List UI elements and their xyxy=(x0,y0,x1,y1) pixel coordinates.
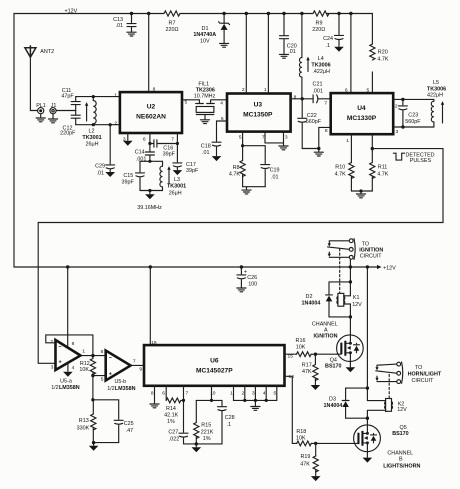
resistor R11 (4.7K) xyxy=(371,134,373,191)
svg-text:221K: 221K xyxy=(201,429,214,435)
capacitor C24 (.1) xyxy=(337,12,340,15)
junction oscillator tank top xyxy=(148,160,151,163)
svg-text:47K: 47K xyxy=(300,462,310,468)
dashed actuator link K2 xyxy=(388,375,390,399)
wire R18 to Q5 gate xyxy=(311,442,353,444)
wire U4 pin2 to C23/L5 xyxy=(393,98,434,100)
svg-text:10K: 10K xyxy=(296,435,306,441)
junction dot U2 pin8 drop xyxy=(147,12,150,15)
svg-text:4: 4 xyxy=(72,365,75,371)
resistor R12 (10K) xyxy=(92,356,94,376)
zener D1 (1N4740A 10V) xyxy=(222,12,225,15)
wire U4 pin3 to L5 bottom xyxy=(393,126,434,128)
capacitor C12 (220pF) xyxy=(71,115,80,125)
svg-text:3: 3 xyxy=(252,390,255,396)
waveform icon detected pulses xyxy=(393,153,404,160)
ground (C13) xyxy=(127,32,136,36)
wire R13/C25 bottom xyxy=(93,443,118,446)
relay K1 contacts xyxy=(349,259,351,267)
op IC U2 NE602AN xyxy=(120,92,182,133)
node +12V arrow right xyxy=(367,266,377,268)
svg-text:1%: 1% xyxy=(167,419,175,425)
wire U6 pin14 to R18 xyxy=(285,376,297,443)
wire R12 to U5-b pin5 xyxy=(91,374,94,377)
diode D3 (1N4004) xyxy=(346,388,368,418)
svg-text:U5-b: U5-b xyxy=(114,379,126,385)
svg-text:R12: R12 xyxy=(80,361,90,367)
wire U6 pin10 stub xyxy=(211,386,213,401)
ground (Q4 source) xyxy=(346,367,356,372)
junction dot U3 pin1 drop xyxy=(267,12,270,15)
inductor L2 (TK3001 26uH) xyxy=(92,97,94,101)
svg-text:U5-a: U5-a xyxy=(60,378,72,384)
op-amp U5-b (1/2 LM358N) xyxy=(106,351,131,381)
capacitor C22 (560pF) xyxy=(298,99,307,149)
jack PL1 xyxy=(38,108,44,114)
junction dot U3 pin2 drop xyxy=(245,12,248,15)
junction dot U4 pin6 drop xyxy=(349,12,352,15)
wire C22 bottom to ground / U4 pin8 xyxy=(302,127,331,151)
svg-text:1: 1 xyxy=(82,348,85,354)
wire R8/C19 bottom xyxy=(243,187,266,190)
wire tank bottom xyxy=(140,190,163,192)
capacitor C21 (.001) xyxy=(313,95,331,103)
ground (Q5 source) xyxy=(363,458,373,463)
resistor R16 (10K) xyxy=(297,352,312,357)
junction L2 top xyxy=(92,95,95,98)
wire U3 pins 7,3 to ground xyxy=(265,132,284,146)
wire U2 pin 6 stub xyxy=(149,133,151,144)
wire U6 pin8 stub to ground xyxy=(154,386,156,404)
capacitor C28 (.1) xyxy=(218,400,227,444)
svg-text:C25: C25 xyxy=(124,421,134,427)
inductor L5 (TK3006 .422uH) xyxy=(433,99,435,101)
diode D2 (1N4004) xyxy=(326,282,333,317)
svg-text:8: 8 xyxy=(151,390,154,396)
svg-text:R17: R17 xyxy=(302,363,312,369)
svg-text:R13: R13 xyxy=(79,418,89,424)
jack J1 xyxy=(50,108,56,114)
op IC U3 MC1350P xyxy=(227,94,291,132)
svg-text:9: 9 xyxy=(139,367,142,373)
wire +12V top rail segment middle xyxy=(180,13,313,15)
svg-text:R18: R18 xyxy=(296,429,306,435)
svg-text:−: − xyxy=(109,355,112,361)
capacitor C29 (.01) xyxy=(109,123,112,126)
junction K2 feed xyxy=(366,265,369,268)
wire U6 pin6 stub xyxy=(165,386,167,401)
svg-text:14: 14 xyxy=(289,374,295,380)
capacitor C25 (.47) xyxy=(93,400,123,443)
junction K1 feed xyxy=(349,265,352,268)
svg-text:U6: U6 xyxy=(210,358,219,365)
ground (R8/C19) xyxy=(242,190,251,194)
capacitor C27 (.022) xyxy=(179,433,188,444)
capacitor C13 (.01) xyxy=(130,12,133,15)
svg-text:R16: R16 xyxy=(296,338,306,344)
filter FIL1 (TK2306 10.7MHz) xyxy=(196,100,227,104)
svg-text:LM358N: LM358N xyxy=(115,386,136,392)
ground (R17) xyxy=(311,385,321,390)
wire U3 pin8 to C21 node xyxy=(291,98,314,100)
svg-text:8: 8 xyxy=(72,341,75,347)
op IC U4 MC1330P xyxy=(331,93,394,134)
wire input tank bottom rail to U2 pin2 xyxy=(76,124,120,126)
capacitor C19 (.01) xyxy=(243,146,270,187)
ground (U6 pins 1-5) xyxy=(251,407,260,411)
wire C27/R15/C28 bottom xyxy=(184,444,223,447)
svg-text:.1: .1 xyxy=(227,422,232,428)
ground (R19) xyxy=(311,476,321,481)
resistor R10 (4.7K) xyxy=(350,134,352,191)
svg-text:1: 1 xyxy=(230,390,233,396)
ground (D1) xyxy=(220,43,229,47)
wire U6 pin7 drop xyxy=(183,386,185,432)
svg-text:47K: 47K xyxy=(302,369,312,375)
resistor R14 (42.1K 1%) xyxy=(166,398,183,403)
wire input tank top rail to U2 pin1 xyxy=(76,96,120,98)
ground (U6 pin 8) xyxy=(150,404,159,408)
svg-text:.022: .022 xyxy=(169,436,180,442)
resistor R9 (220 ohm, in rail) xyxy=(313,11,329,16)
svg-text:C28: C28 xyxy=(225,415,235,421)
resistor R15 (221K 1%) xyxy=(195,400,197,444)
wire +12V top rail segment left xyxy=(14,14,164,268)
ground (C24) xyxy=(334,47,344,52)
svg-text:3: 3 xyxy=(51,365,54,371)
ground (U2 pin 3) xyxy=(123,141,133,146)
resistor R8 (4.7K) xyxy=(242,146,244,187)
wire K1 +12V branch xyxy=(329,267,350,335)
wire R16 to Q4 gate xyxy=(311,353,337,355)
wire op-amp V+ drop xyxy=(67,267,69,348)
inductor L4 (TK3006 .422uH) xyxy=(300,12,303,15)
antenna ANT2 xyxy=(25,45,36,57)
ground (U3 pin3) xyxy=(279,146,288,150)
wire U5-a output to U5-b pin6 xyxy=(81,355,106,357)
svg-text:+: + xyxy=(109,371,112,377)
ground (R15/C27/C28) xyxy=(192,447,202,452)
ground (J1) xyxy=(48,119,57,123)
svg-text:10K: 10K xyxy=(296,344,306,350)
svg-text:MC145027P: MC145027P xyxy=(196,368,233,375)
wire U3 pin 1 drop xyxy=(267,14,269,94)
wire U3 pin 2 drop xyxy=(245,14,247,94)
capacitor C18 (.01) xyxy=(212,121,227,156)
ground (C18) xyxy=(212,156,222,161)
capacitor C20 (.01) xyxy=(282,12,285,15)
svg-text:R19: R19 xyxy=(301,454,311,460)
svg-text:2: 2 xyxy=(50,339,53,345)
junction op-amp supply drop xyxy=(66,265,69,268)
transistor Q5 (BS170, MOSFET) xyxy=(354,425,381,452)
wire U6 pin16 drop xyxy=(149,267,151,345)
svg-text:5: 5 xyxy=(274,390,277,396)
svg-text:1/2: 1/2 xyxy=(107,386,115,392)
wire U2 pin 7 stub xyxy=(176,133,178,144)
capacitor C26 (100uF polarized) xyxy=(240,265,243,268)
svg-text:6: 6 xyxy=(162,390,165,396)
svg-text:6: 6 xyxy=(101,349,104,355)
svg-text:LM358N: LM358N xyxy=(59,385,80,391)
wire U5-b output to U6 pin9 xyxy=(131,364,144,366)
svg-text:1/2: 1/2 xyxy=(51,385,59,391)
wire K2 feed drop xyxy=(367,267,385,425)
op-amp U5-a (1/2 LM358N) xyxy=(56,340,81,370)
capacitor C17 (39pF) xyxy=(173,144,182,170)
inductor L3 (TK3001 26uH) xyxy=(162,161,164,166)
resistor R18 (10K) xyxy=(297,441,312,446)
junction detected pulses takeoff xyxy=(371,147,374,150)
wire U6 pins 1-5 common xyxy=(234,386,277,406)
svg-text:−: − xyxy=(59,345,62,351)
junction U6 pin16 drop xyxy=(149,265,152,268)
ground (C26) xyxy=(237,288,246,292)
relay coil K2 (12V) xyxy=(386,399,392,412)
wire U2 pin5 to FIL1 xyxy=(182,100,199,103)
ground (C29) xyxy=(105,172,115,177)
wire R10/R11 bottom xyxy=(351,191,372,194)
svg-text:.47: .47 xyxy=(126,428,134,434)
resistor R19 (47K) xyxy=(315,443,317,475)
svg-text:1%: 1% xyxy=(203,436,211,442)
wire U5-a feedback loop pin2 xyxy=(46,335,93,356)
wire +12V lower rail xyxy=(14,266,367,268)
capacitor C14 (.001) xyxy=(145,144,154,162)
resistor R17 (47K) xyxy=(314,354,316,384)
svg-text:7: 7 xyxy=(186,390,189,396)
resistor R7 (220 ohm, in rail) xyxy=(164,11,180,16)
svg-text:C27: C27 xyxy=(168,430,178,436)
svg-text:+: + xyxy=(59,360,62,366)
wire U6 pin15 to R16 xyxy=(285,353,297,355)
capacitor C16 (39pF) xyxy=(150,140,178,147)
resistor R20 (4.7K) xyxy=(371,14,373,94)
capacitor C23 (560pF) xyxy=(398,99,407,127)
wire R15/C28 top rail xyxy=(196,399,222,401)
ground (FIL1) xyxy=(200,120,209,124)
wire tank top xyxy=(140,160,163,162)
wire U5-a pin4 to ground xyxy=(67,363,69,371)
ground (R10/R11) xyxy=(356,194,365,198)
svg-text:42.1K: 42.1K xyxy=(164,412,178,418)
wire detected pulses to comparator (right side loop) xyxy=(38,149,443,364)
wire U4 pin 6 drop xyxy=(350,14,352,94)
resistor R13 (330K) xyxy=(92,400,94,443)
relay K2 contacts xyxy=(397,362,401,366)
svg-text:330K: 330K xyxy=(77,425,90,431)
ground (oscillator tank) xyxy=(145,194,155,199)
capacitor C15 (39pF) xyxy=(136,161,145,190)
svg-text:7: 7 xyxy=(133,358,136,364)
svg-text:R15: R15 xyxy=(201,423,211,429)
wire +12V top rail segment right xyxy=(327,13,372,15)
svg-text:2: 2 xyxy=(242,390,245,396)
wire U3 pin5 stub xyxy=(242,132,244,146)
svg-text:4: 4 xyxy=(263,390,266,396)
dashed actuator link K1 xyxy=(339,249,341,293)
ground (C20) xyxy=(279,54,288,58)
wire J1 to C11/C12 node xyxy=(56,105,76,111)
svg-text:5: 5 xyxy=(101,376,104,382)
ground (U5-a pin 4) xyxy=(63,372,73,377)
wire U2 pin 8 drop xyxy=(148,14,150,93)
ground (C17) xyxy=(173,170,183,175)
junction L2 bottom xyxy=(92,123,95,126)
capacitor C11 (47pF) xyxy=(71,97,80,105)
op IC U6 MC145027P xyxy=(144,345,285,386)
svg-text:16: 16 xyxy=(151,340,157,346)
svg-text:R14: R14 xyxy=(166,406,176,412)
ground (PL1) xyxy=(36,118,45,122)
svg-text:10K: 10K xyxy=(79,367,89,373)
transistor Q4 (BS170, MOSFET) xyxy=(337,335,364,362)
ground (C22/U4 pin8) xyxy=(314,152,323,156)
wire U2 pin 3 stub xyxy=(127,133,129,140)
ground (R13/C25) xyxy=(89,446,99,451)
relay coil K1 (12V) xyxy=(338,293,344,306)
